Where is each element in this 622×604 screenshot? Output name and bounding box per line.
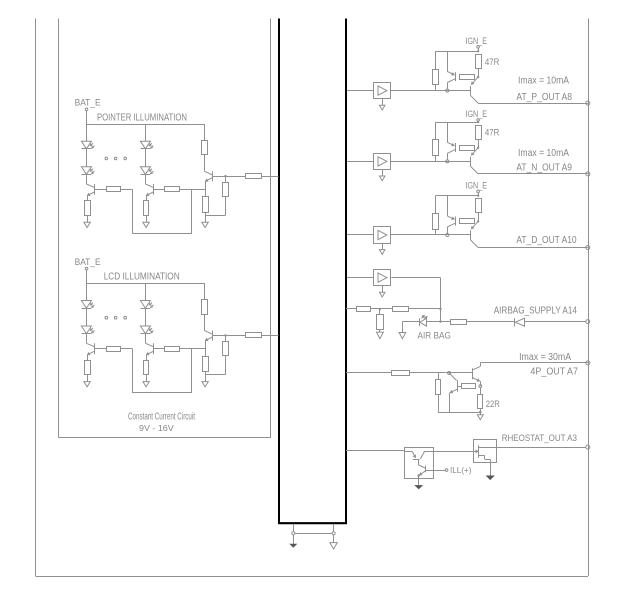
svg-text:POINTER ILLUMINATION: POINTER ILLUMINATION <box>97 112 187 123</box>
svg-text:Constant Current Circuit: Constant Current Circuit <box>128 412 195 423</box>
svg-text:AT_P_OUT A8: AT_P_OUT A8 <box>516 92 572 103</box>
svg-text:ILL(+): ILL(+) <box>450 465 472 475</box>
svg-text:AIRBAG_SUPPLY A14: AIRBAG_SUPPLY A14 <box>494 305 578 316</box>
svg-text:IGN_E: IGN_E <box>466 109 488 119</box>
svg-text:LCD ILLUMINATION: LCD ILLUMINATION <box>104 272 180 283</box>
svg-text:AIR BAG: AIR BAG <box>418 330 451 340</box>
svg-text:47R: 47R <box>485 128 500 139</box>
svg-text:9V - 16V: 9V - 16V <box>139 423 174 433</box>
svg-text:Imax = 10mA: Imax = 10mA <box>518 148 569 159</box>
svg-text:BAT_E: BAT_E <box>75 98 101 108</box>
svg-text:RHEOSTAT_OUT A3: RHEOSTAT_OUT A3 <box>502 433 577 443</box>
svg-text:Imax = 10mA: Imax = 10mA <box>518 76 569 87</box>
svg-text:AT_N_OUT A9: AT_N_OUT A9 <box>516 162 572 173</box>
svg-text:IGN_E: IGN_E <box>466 180 488 190</box>
svg-text:Imax = 30mA: Imax = 30mA <box>519 352 571 363</box>
svg-text:47R: 47R <box>485 57 500 68</box>
svg-text:IGN_E: IGN_E <box>466 36 488 46</box>
svg-text:4P_OUT A7: 4P_OUT A7 <box>530 366 578 377</box>
svg-text:AT_D_OUT A10: AT_D_OUT A10 <box>516 235 577 246</box>
svg-text:22R: 22R <box>486 399 500 410</box>
svg-text:BAT_E: BAT_E <box>75 257 101 267</box>
